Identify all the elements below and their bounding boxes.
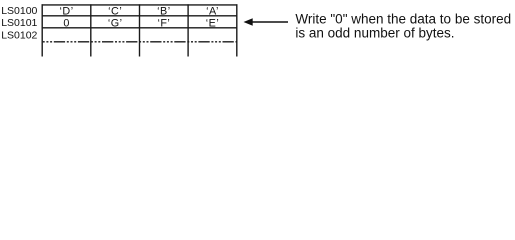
svg-text:‘A’: ‘A’ — [206, 5, 219, 17]
wire table column line 1 — [90, 4, 92, 56]
svg-text:LS0100: LS0100 — [1, 5, 37, 17]
wire table top border — [42, 4, 238, 6]
wire table continuation dashed line — [43, 41, 238, 43]
svg-text:‘B’: ‘B’ — [157, 5, 171, 17]
svg-text:‘F’: ‘F’ — [157, 17, 170, 29]
wire pointer arrow head — [244, 18, 253, 26]
svg-text:is an odd number of bytes.: is an odd number of bytes. — [295, 25, 454, 40]
svg-text:‘E’: ‘E’ — [206, 17, 220, 29]
wire pointer arrow shaft — [252, 21, 288, 23]
svg-text:0: 0 — [63, 17, 70, 29]
wire table column line 3 — [187, 4, 189, 56]
wire table left border — [41, 4, 43, 56]
wire table right border — [236, 4, 238, 56]
svg-text:LS0101: LS0101 — [1, 17, 37, 29]
svg-text:LS0102: LS0102 — [1, 29, 37, 41]
wire table row separator 1 — [42, 15, 238, 17]
wire table column line 2 — [139, 4, 141, 56]
svg-text:‘G’: ‘G’ — [108, 17, 123, 29]
svg-text:‘D’: ‘D’ — [60, 5, 74, 17]
svg-text:‘C’: ‘C’ — [108, 5, 122, 17]
wire table row separator 2 — [42, 27, 238, 29]
svg-text:Write "0" when the data to be: Write "0" when the data to be stored — [295, 11, 511, 26]
